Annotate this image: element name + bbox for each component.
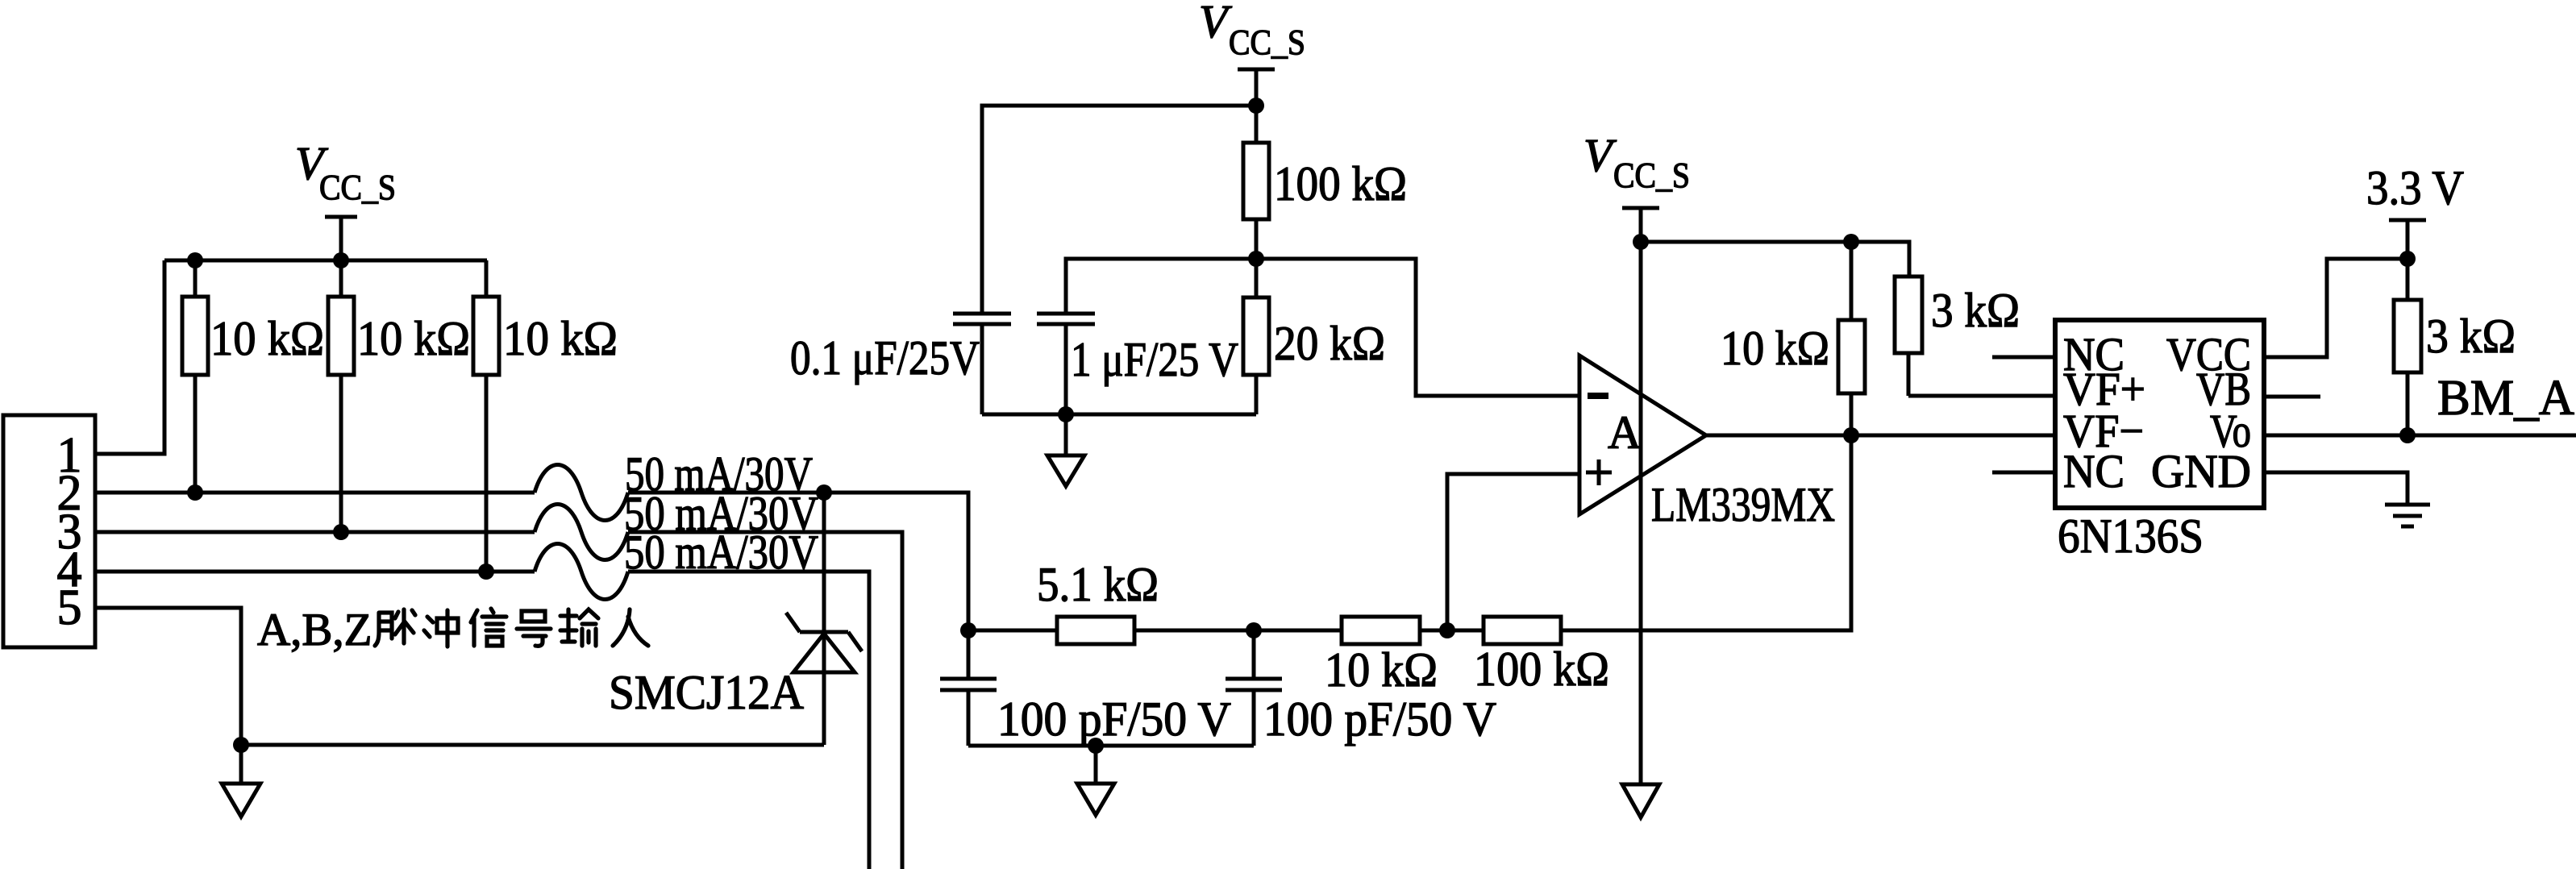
wire ground return (pin5 to TVS anode): [241, 743, 824, 747]
node dot R1-pin2: [187, 484, 203, 501]
fuse F1 (wave on pin2 line): [535, 465, 628, 521]
node dot plus-input tap: [1439, 622, 1455, 638]
pin label VB: [2196, 363, 2251, 415]
value label 10 kOhm (R9): [1721, 322, 1829, 375]
VCC_S power symbol (left): [325, 217, 357, 260]
svg-text:100 kΩ: 100 kΩ: [1274, 157, 1407, 210]
CJK glyph mai: [375, 609, 415, 646]
wire VCC rail to pull-ups: [1641, 242, 1909, 276]
svg-text:SMCJ12A: SMCJ12A: [609, 666, 804, 719]
svg-text:3.3 V: 3.3 V: [2366, 161, 2464, 214]
value label 3 kOhm (R11): [2426, 310, 2516, 363]
wire divider bottom rail: [982, 413, 1256, 417]
earth ground (opto): [2385, 505, 2430, 526]
pin 5 label: [57, 580, 82, 635]
node dot comparator VCC: [1633, 234, 1649, 250]
node dot Vo pull-up: [2399, 427, 2416, 443]
node dot VCC mid: [1248, 98, 1264, 114]
node dot RC input node: [960, 622, 976, 638]
wire channel Z after fuse (down off page): [628, 572, 869, 869]
node dot output: [1843, 427, 1859, 443]
value label 20 kOhm (R5): [1274, 317, 1385, 370]
CJK glyph shu: [560, 609, 598, 646]
wire comparator output to VF-: [1706, 434, 2055, 438]
svg-text:10 kΩ: 10 kΩ: [210, 312, 324, 365]
value label 5.1 kOhm (R6): [1037, 558, 1159, 611]
resistor R5 20k (divider bottom): [1243, 259, 1269, 414]
value label 10 kOhm (R2): [357, 312, 470, 365]
wire divider mid to comparator minus input: [1256, 259, 1579, 396]
node dot rail-R2: [333, 252, 349, 268]
CJK glyph xin: [471, 609, 506, 646]
part label SMCJ12A: [609, 666, 804, 719]
TVS diode D1 SMCJ12A: [786, 493, 862, 745]
net label VCC_S (middle): [1199, 0, 1305, 62]
svg-text:BM_A: BM_A: [2437, 371, 2574, 426]
wire pin5: [95, 608, 241, 745]
fuse F2 (wave on pin3 line): [535, 505, 628, 560]
resistor R4 100k (divider top): [1243, 106, 1269, 259]
svg-text:10 kΩ: 10 kΩ: [1721, 322, 1829, 375]
value label 100 pF/50 V (C4): [1263, 692, 1496, 746]
node dot rail-R9: [1843, 234, 1859, 250]
connector J1 (5-pin input): [3, 415, 95, 647]
3.3V power symbol: [2389, 220, 2426, 259]
node dot 3.3V rail: [2399, 251, 2416, 267]
wire VCC pin to 3.3V: [2264, 259, 2407, 357]
minus sign (inverting input): [1588, 393, 1608, 399]
svg-text:CC_S: CC_S: [1613, 156, 1690, 195]
pin 4 label: [57, 543, 82, 597]
wire GND pin to earth: [2264, 472, 2407, 503]
node dot rail-R1: [187, 252, 203, 268]
node dot R3-pin4: [478, 563, 494, 580]
ground (signal gnd under pin5): [222, 745, 260, 817]
plus sign (non-inverting input): [1586, 459, 1612, 485]
pin label GND: [2151, 445, 2251, 497]
pin label NC (top): [2063, 328, 2124, 380]
capacitor C4 100pF/50V: [1226, 630, 1282, 746]
svg-text:CC_S: CC_S: [1229, 23, 1305, 62]
VCC_S power symbol (comparator): [1622, 208, 1659, 242]
CJK glyph hao: [517, 611, 551, 646]
wire pin1 to rail: [95, 260, 164, 454]
input label A,B,Z pulse signal input: [257, 605, 372, 655]
node dot divider gnd: [1058, 406, 1074, 422]
value label 10 kOhm (R3): [503, 312, 618, 365]
wire R7 to R8: [1420, 629, 1484, 633]
svg-text:GND: GND: [2151, 445, 2251, 497]
resistor R3 10k (pull-up pin4): [473, 260, 499, 572]
pin 1 label: [57, 428, 82, 483]
wire channel B after fuse (down off page): [628, 532, 902, 869]
net label VCC_S (left): [295, 137, 396, 207]
CJK glyphs (hand-drawn): 脉冲信号输入: [375, 609, 648, 647]
capacitor C2 1uF/25V: [1037, 314, 1095, 414]
svg-text:NC: NC: [2063, 445, 2124, 497]
node dot pin5-gnd: [233, 737, 249, 753]
value label 100 kOhm (R4): [1274, 157, 1407, 210]
value label 100 pF/50 V (C3): [997, 692, 1231, 746]
capacitor C1 0.1uF/25V: [953, 314, 1011, 414]
svg-text:V: V: [1199, 0, 1233, 48]
net label VCC_S (comparator): [1583, 129, 1690, 195]
CJK glyph ru: [613, 609, 648, 646]
pin label NC (bottom): [2063, 445, 2124, 497]
pin label VF-: [2063, 405, 2144, 457]
svg-text:6N136S: 6N136S: [2058, 509, 2204, 563]
CJK glyph chong: [424, 610, 458, 647]
part label 6N136S: [2058, 509, 2204, 563]
net label 3.3 V: [2366, 161, 2464, 214]
wire tap to comparator plus input: [1447, 474, 1579, 630]
svg-text:LM339MX: LM339MX: [1651, 478, 1835, 531]
label A (comparator section): [1608, 406, 1642, 459]
svg-text:10 kΩ: 10 kΩ: [503, 312, 618, 365]
svg-text:A: A: [1608, 406, 1642, 459]
wire feedback (R8 to output): [1561, 435, 1851, 630]
node dot TVS top: [816, 484, 832, 501]
value label 0.1 uF/25V: [790, 331, 980, 385]
svg-text:100 pF/50 V: 100 pF/50 V: [1263, 692, 1496, 746]
wire pin3: [95, 530, 535, 534]
optocoupler U2 6N136S box: [2055, 320, 2264, 508]
resistor R1 10k (pull-up pin2): [182, 260, 208, 493]
wire pin2: [95, 491, 535, 495]
resistor R11 3k (output pull-up): [2394, 259, 2421, 435]
ground (comparator): [1622, 784, 1659, 817]
wire R10 to VF+: [1908, 394, 2055, 398]
resistor R10 3k (LED series): [1895, 276, 1922, 396]
svg-text:10 kΩ: 10 kΩ: [357, 312, 470, 365]
node dot R2-pin3: [333, 524, 349, 540]
wire VCC rail (left): [164, 259, 487, 263]
net label BM_A: [2437, 371, 2574, 426]
ground (under caps): [1077, 746, 1114, 815]
resistor R7 10k: [1342, 617, 1420, 644]
resistor R6 5.1k: [1057, 617, 1134, 644]
svg-text:100 kΩ: 100 kΩ: [1474, 642, 1609, 696]
svg-text:100 pF/50 V: 100 pF/50 V: [997, 692, 1231, 746]
resistor R2 10k (pull-up pin3): [328, 260, 354, 532]
svg-text:5: 5: [57, 580, 82, 635]
VCC_S power symbol (middle): [1238, 69, 1275, 106]
resistor R8 100k: [1484, 617, 1561, 644]
value label 10 kOhm (R7): [1325, 643, 1438, 696]
wire channel A after fuse: [628, 493, 968, 630]
svg-text:5.1 kΩ: 5.1 kΩ: [1037, 558, 1159, 611]
ground (under divider): [1047, 414, 1084, 486]
pin 2 label: [57, 466, 82, 521]
pin label VF+: [2063, 363, 2145, 415]
value label 100 kOhm (R8): [1474, 642, 1609, 696]
wire comparator power (VCC through to GND): [1639, 242, 1643, 784]
part label LM339MX: [1651, 478, 1835, 531]
value label 10 kOhm (R1): [210, 312, 324, 365]
node dot divider mid: [1248, 251, 1264, 267]
resistor R9 10k (output pull-up): [1838, 242, 1865, 435]
capacitor C3 100pF/50V: [940, 630, 997, 746]
svg-text:20 kΩ: 20 kΩ: [1274, 317, 1385, 370]
wire pin4: [95, 570, 535, 574]
wire cap ground rail: [968, 744, 1254, 748]
wire divider mid to 1uF branch: [1066, 259, 1256, 312]
pin stub NC (bottom left): [1992, 471, 2055, 475]
svg-text:A,B,Z: A,B,Z: [257, 605, 372, 655]
rating label 50 mA/30V (F3): [624, 526, 818, 579]
wire VCC to 0.1uF branch: [982, 106, 1256, 312]
op-amp U1A LM339MX comparator triangle: [1579, 355, 1706, 514]
svg-text:V: V: [1583, 129, 1617, 181]
pin stub NC (top left): [1992, 355, 2055, 360]
fuse F3 (wave on pin4 line): [535, 544, 628, 600]
svg-text:1 μF/25 V: 1 μF/25 V: [1071, 333, 1238, 386]
pin label VCC: [2166, 328, 2251, 380]
pin stub VB: [2264, 395, 2320, 399]
value label 3 kOhm (R10): [1931, 284, 2020, 337]
svg-text:CC_S: CC_S: [319, 168, 396, 207]
rating label 50 mA/30V (F1): [625, 447, 813, 501]
node dot cap gnd: [1088, 738, 1104, 754]
rating label 50 mA/30V (F2): [624, 487, 818, 540]
svg-text:3 kΩ: 3 kΩ: [2426, 310, 2516, 363]
svg-text:3 kΩ: 3 kΩ: [1931, 284, 2020, 337]
wire R6 to R7: [1134, 629, 1342, 633]
svg-text:10 kΩ: 10 kΩ: [1325, 643, 1438, 696]
wire Vo output BM_A: [2264, 434, 2576, 438]
wire node to R6: [968, 629, 1057, 633]
node dot C4 top: [1246, 622, 1262, 638]
pin 3 label: [57, 505, 82, 559]
value label 1 uF/25 V: [1071, 333, 1238, 386]
svg-text:0.1 μF/25V: 0.1 μF/25V: [790, 331, 980, 385]
pin label Vo: [2210, 405, 2251, 457]
